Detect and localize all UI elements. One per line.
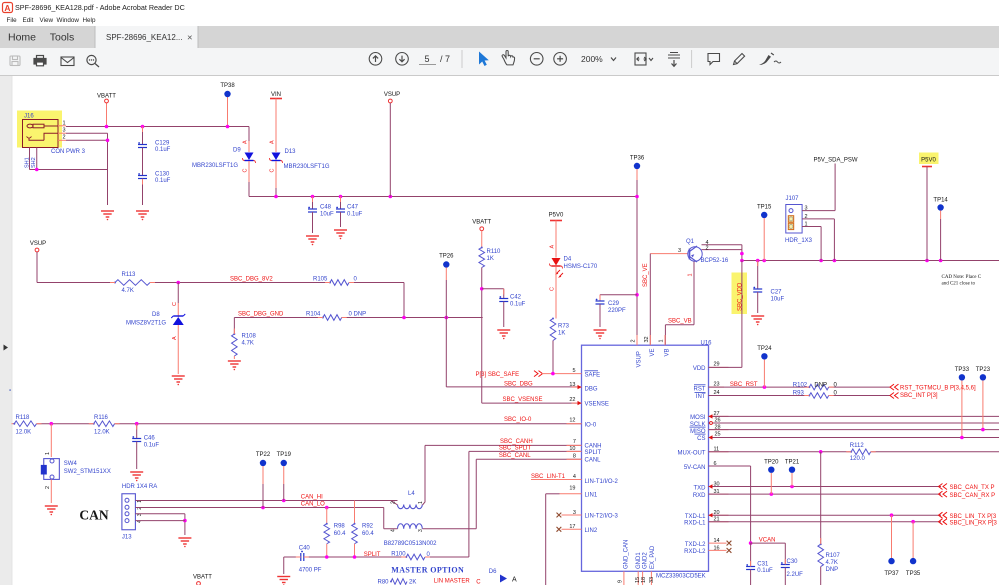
svg-text:P5V_SDA_PSW: P5V_SDA_PSW [814, 158, 858, 164]
svg-text:VBATT: VBATT [472, 220, 491, 226]
svg-text:DBG: DBG [585, 387, 598, 393]
svg-text:0.1uF: 0.1uF [347, 212, 363, 218]
svg-text:29: 29 [714, 362, 720, 368]
svg-text:5: 5 [424, 54, 429, 64]
svg-text:SBC_LIN_RX P[3: SBC_LIN_RX P[3 [950, 520, 998, 526]
svg-text:SBC_VE: SBC_VE [643, 263, 649, 287]
svg-text:4.7K: 4.7K [242, 341, 254, 347]
svg-text:HSMS-C170: HSMS-C170 [564, 264, 598, 270]
svg-text:A: A [270, 140, 276, 144]
svg-text:SW4: SW4 [64, 461, 78, 467]
svg-text:CS: CS [697, 436, 705, 442]
svg-text:VSUP: VSUP [637, 351, 643, 367]
svg-text:10uF: 10uF [320, 212, 334, 218]
svg-text:SBC_DBG_8V2: SBC_DBG_8V2 [230, 277, 273, 283]
svg-text:P5V0: P5V0 [549, 213, 564, 219]
svg-text:2: 2 [45, 486, 51, 489]
svg-text:4: 4 [391, 529, 397, 532]
svg-text:0 DNP: 0 DNP [349, 312, 367, 318]
svg-text:SPF-28696_KEA12...: SPF-28696_KEA12... [106, 33, 183, 42]
svg-text:CAN_HI: CAN_HI [301, 495, 323, 501]
svg-text:VBATT: VBATT [97, 94, 116, 100]
svg-text:SBC_CANH: SBC_CANH [500, 439, 533, 445]
svg-text:VSUP: VSUP [30, 241, 46, 247]
svg-text:SBC_LIN_TX P[3: SBC_LIN_TX P[3 [950, 514, 997, 520]
svg-text:SH2: SH2 [31, 157, 37, 168]
svg-text:A: A [550, 245, 556, 249]
svg-text:TXD-L1: TXD-L1 [685, 514, 706, 520]
svg-text:C48: C48 [320, 205, 332, 211]
svg-text:0.1uF: 0.1uF [144, 443, 160, 449]
svg-text:A: A [172, 336, 178, 340]
svg-text:SBC_CAN_TX P: SBC_CAN_TX P [950, 485, 995, 491]
svg-text:1: 1 [659, 339, 665, 342]
svg-text:D8: D8 [152, 312, 160, 318]
svg-text:5: 5 [572, 368, 575, 374]
svg-text:LIN-T1/I/O-2: LIN-T1/I/O-2 [585, 479, 619, 485]
svg-text:D9: D9 [233, 148, 241, 154]
svg-text:D13: D13 [285, 149, 297, 155]
svg-text:C29: C29 [608, 301, 620, 307]
svg-text:1K: 1K [487, 256, 494, 262]
svg-text:RST: RST [694, 387, 706, 393]
svg-text:C42: C42 [510, 295, 522, 301]
svg-text:LIN-T2/I/O-3: LIN-T2/I/O-3 [585, 514, 619, 520]
svg-text:SBC_DBG: SBC_DBG [504, 382, 533, 388]
svg-text:MASTER OPTION: MASTER OPTION [391, 566, 464, 575]
svg-text:12.0K: 12.0K [94, 430, 110, 436]
svg-text:VIN: VIN [271, 92, 281, 98]
svg-text:A: A [512, 577, 517, 584]
svg-text:R92: R92 [362, 524, 374, 530]
svg-text:RXD: RXD [693, 493, 706, 499]
svg-text:VB: VB [665, 348, 671, 356]
svg-text:Help: Help [83, 17, 96, 24]
svg-text:P[3] SBC_SAFE: P[3] SBC_SAFE [476, 372, 520, 378]
svg-text:2: 2 [631, 339, 637, 342]
svg-text:IO-0: IO-0 [585, 422, 597, 428]
svg-text:D6: D6 [489, 569, 497, 575]
svg-text:R104: R104 [306, 312, 321, 318]
svg-text:CAN: CAN [79, 508, 108, 523]
svg-text:SPLIT: SPLIT [585, 450, 602, 456]
svg-text:LIN MASTER: LIN MASTER [434, 579, 471, 585]
svg-text:TP20: TP20 [764, 460, 779, 466]
svg-text:1: 1 [63, 121, 66, 127]
svg-text:TP19: TP19 [277, 452, 292, 458]
svg-text:CANL: CANL [585, 457, 602, 463]
svg-text:File: File [7, 17, 18, 24]
svg-text:TP38: TP38 [220, 83, 235, 89]
svg-text:SPF-28696_KEA128.pdf - Adobe A: SPF-28696_KEA128.pdf - Adobe Acrobat Rea… [15, 3, 185, 12]
svg-text:P5V0: P5V0 [921, 158, 936, 164]
svg-text:R110: R110 [487, 249, 502, 255]
svg-text:SBC_IO-0: SBC_IO-0 [504, 417, 532, 423]
svg-text:R98: R98 [334, 524, 346, 530]
svg-text:VSUP: VSUP [384, 92, 400, 98]
svg-text:MBR230LSFT1G: MBR230LSFT1G [192, 163, 238, 169]
svg-text:C: C [476, 580, 481, 585]
svg-text:C: C [550, 287, 556, 291]
svg-text:C46: C46 [144, 436, 156, 442]
svg-text:A: A [4, 3, 10, 13]
svg-text:VSENSE: VSENSE [585, 402, 609, 408]
svg-text:TP33: TP33 [955, 367, 970, 373]
svg-text:R108: R108 [242, 334, 257, 340]
svg-text:TXD: TXD [694, 485, 707, 491]
svg-text:SBC_SPLIT: SBC_SPLIT [499, 446, 532, 452]
svg-text:RXD-L1: RXD-L1 [684, 520, 706, 526]
svg-text:U16: U16 [701, 340, 713, 346]
svg-text:LIN2: LIN2 [585, 528, 598, 534]
svg-text:A: A [243, 140, 249, 144]
svg-text:L4: L4 [408, 491, 415, 497]
svg-text:2: 2 [391, 501, 397, 504]
svg-text:C: C [172, 302, 178, 306]
svg-text:VBATT: VBATT [193, 575, 212, 581]
svg-text:12.0K: 12.0K [16, 430, 32, 436]
svg-text:C: C [270, 169, 276, 173]
svg-text:GND2: GND2 [643, 552, 649, 569]
svg-text:2K: 2K [409, 580, 416, 585]
svg-text:3: 3 [63, 128, 66, 134]
svg-text:VCAN: VCAN [759, 538, 776, 544]
svg-text:HDR_1X3: HDR_1X3 [785, 238, 813, 244]
svg-text:R118: R118 [16, 415, 31, 421]
svg-text:GND1: GND1 [636, 552, 642, 569]
svg-text:TP23: TP23 [976, 367, 991, 373]
svg-text:1: 1 [688, 273, 694, 276]
svg-text:4.7K: 4.7K [826, 560, 838, 566]
svg-text:200%: 200% [581, 54, 603, 64]
svg-text:BCP52-16: BCP52-16 [701, 258, 729, 264]
svg-text:RST_TGTMCU_B P[3,4,5,6]: RST_TGTMCU_B P[3,4,5,6] [900, 386, 976, 392]
svg-text:TXD-L2: TXD-L2 [685, 542, 706, 548]
svg-text:R80: R80 [378, 580, 390, 585]
svg-text:MMSZ8V2T1G: MMSZ8V2T1G [126, 321, 166, 327]
svg-text:1: 1 [805, 222, 808, 228]
svg-text:TP26: TP26 [439, 254, 454, 260]
svg-text:MUX-OUT: MUX-OUT [678, 450, 706, 456]
svg-text:SPLIT: SPLIT [364, 552, 381, 558]
svg-text:C129: C129 [155, 141, 170, 147]
svg-text:Edit: Edit [23, 17, 34, 24]
svg-text:R112: R112 [850, 443, 865, 449]
svg-text:4700 PF: 4700 PF [299, 567, 322, 573]
svg-text:D4: D4 [564, 257, 572, 263]
svg-text:1K: 1K [558, 331, 565, 337]
svg-text:SBC_RST: SBC_RST [730, 382, 758, 388]
svg-text:SBC_DBG_GND: SBC_DBG_GND [238, 312, 284, 318]
svg-text:MOSI: MOSI [690, 415, 706, 421]
svg-text:C30: C30 [787, 559, 799, 565]
svg-text:1: 1 [45, 452, 51, 455]
svg-text:2: 2 [706, 245, 709, 251]
svg-text:Tools: Tools [50, 32, 75, 44]
svg-text:J107: J107 [786, 196, 800, 202]
svg-text:32: 32 [644, 336, 650, 342]
svg-text:R113: R113 [122, 272, 137, 278]
svg-text:25: 25 [715, 431, 721, 437]
svg-text:3: 3 [678, 248, 681, 254]
svg-text:2: 2 [805, 214, 808, 220]
svg-text:2: 2 [63, 135, 66, 141]
svg-text:R93: R93 [793, 391, 805, 397]
svg-text:J16: J16 [24, 114, 34, 120]
svg-text:0.1uF: 0.1uF [155, 178, 171, 184]
svg-text:SW2_STM151XX: SW2_STM151XX [64, 469, 111, 475]
svg-text:SBC_VSENSE: SBC_VSENSE [503, 397, 543, 403]
svg-text:7: 7 [573, 439, 576, 445]
svg-text:GND_CAN: GND_CAN [624, 540, 630, 569]
svg-text:C130: C130 [155, 172, 170, 178]
svg-text:Q1: Q1 [686, 239, 695, 245]
svg-text:B82789C0513N002: B82789C0513N002 [384, 541, 437, 547]
svg-text:/ 7: / 7 [440, 54, 450, 64]
svg-text:220PF: 220PF [608, 308, 626, 314]
svg-text:VE: VE [650, 348, 656, 356]
svg-text:C47: C47 [347, 205, 359, 211]
svg-text:CAD Note: Place C: CAD Note: Place C [942, 275, 982, 280]
svg-text:R116: R116 [94, 415, 109, 421]
svg-text:1: 1 [418, 501, 424, 504]
svg-text:SBC_VB: SBC_VB [668, 319, 692, 325]
svg-text:Window: Window [57, 17, 80, 24]
svg-text:60.4: 60.4 [362, 531, 374, 537]
svg-text:9: 9 [618, 580, 624, 583]
svg-text:SAFE: SAFE [585, 373, 601, 379]
svg-text:VDD: VDD [693, 366, 706, 372]
svg-text:INT: INT [696, 394, 706, 400]
svg-text:19: 19 [569, 486, 575, 492]
svg-text:TP24: TP24 [757, 346, 772, 352]
svg-text:×: × [187, 33, 193, 44]
svg-text:CANH: CANH [585, 443, 602, 449]
svg-text:HDR 1X4 RA: HDR 1X4 RA [122, 484, 157, 490]
svg-text:RXD-L2: RXD-L2 [684, 549, 706, 555]
svg-text:J13: J13 [122, 535, 132, 541]
svg-text:3: 3 [418, 529, 424, 532]
svg-text:MCZ33903CD5EK: MCZ33903CD5EK [656, 574, 706, 580]
svg-text:10uF: 10uF [771, 297, 785, 303]
svg-text:5V-CAN: 5V-CAN [684, 465, 706, 471]
svg-text:R73: R73 [558, 324, 570, 330]
svg-text:12: 12 [569, 418, 575, 424]
svg-text:CON PWR 3: CON PWR 3 [51, 149, 86, 155]
svg-text:TP22: TP22 [256, 452, 271, 458]
svg-text:SBC_CANL: SBC_CANL [499, 453, 531, 459]
svg-text:33: 33 [649, 577, 655, 583]
svg-text:C27: C27 [771, 290, 783, 296]
svg-text:TP36: TP36 [630, 156, 645, 162]
svg-text:Home: Home [8, 32, 36, 44]
svg-text:3: 3 [805, 206, 808, 212]
svg-text:R107: R107 [826, 553, 841, 559]
svg-text:TP15: TP15 [757, 205, 772, 211]
svg-text:18: 18 [641, 577, 647, 583]
svg-text:MBR230LSFT1G: MBR230LSFT1G [284, 164, 330, 170]
svg-text:C40: C40 [299, 546, 311, 552]
svg-text:CAN_LO: CAN_LO [301, 502, 325, 508]
svg-text:22: 22 [569, 397, 575, 403]
svg-text:TP37: TP37 [884, 571, 899, 577]
svg-text:4.7K: 4.7K [122, 288, 134, 294]
svg-text:SBC_INT P[3]: SBC_INT P[3] [900, 393, 938, 399]
svg-text:SBC_CAN_RX P: SBC_CAN_RX P [950, 493, 996, 499]
svg-text:0.1uF: 0.1uF [757, 568, 773, 574]
svg-text:120.0: 120.0 [850, 456, 866, 462]
svg-text:0.1uF: 0.1uF [155, 147, 171, 153]
svg-text:View: View [40, 17, 54, 24]
svg-text:C31: C31 [757, 562, 769, 568]
svg-text:0.1uF: 0.1uF [510, 302, 526, 308]
svg-text:DNP: DNP [826, 567, 839, 573]
svg-text:TP21: TP21 [785, 460, 800, 466]
svg-text:8: 8 [573, 453, 576, 459]
svg-text:2.2UF: 2.2UF [787, 572, 804, 578]
svg-text:R105: R105 [313, 277, 328, 283]
svg-text:EX_PAD: EX_PAD [650, 545, 656, 569]
svg-text:LIN1: LIN1 [585, 493, 598, 499]
svg-text:C: C [243, 169, 249, 173]
svg-text:DNP: DNP [814, 382, 827, 388]
svg-text:TP14: TP14 [933, 198, 948, 204]
svg-text:60.4: 60.4 [334, 531, 346, 537]
svg-text:TP35: TP35 [906, 571, 921, 577]
svg-text:and C21 close to: and C21 close to [942, 282, 976, 287]
svg-text:SBC_VDD: SBC_VDD [738, 282, 744, 311]
